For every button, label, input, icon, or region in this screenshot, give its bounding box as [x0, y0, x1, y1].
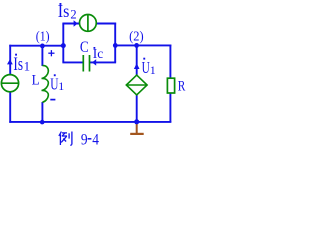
inductor L coil	[42, 66, 49, 103]
wire left branch vertical	[9, 45, 11, 123]
caption Chinese character li (example)	[59, 132, 72, 146]
current source Is1	[1, 75, 18, 92]
label plus inductor	[48, 50, 54, 56]
svg-text:R: R	[178, 79, 186, 95]
label Is1	[13, 54, 30, 75]
wire inductor branch top	[41, 46, 43, 66]
ground	[130, 123, 144, 134]
wire dependent source branch top	[136, 45, 138, 76]
wire Is2 right horizontal	[96, 23, 116, 25]
svg-text:Ic: Ic	[93, 46, 104, 61]
svg-text:U: U	[142, 58, 150, 77]
svg-text:1: 1	[150, 63, 156, 77]
arrow U1 dependent source	[134, 63, 140, 69]
wire Is2 left horizontal	[62, 23, 79, 25]
svg-text:C: C	[80, 39, 89, 56]
wire node 1 rail	[9, 45, 64, 47]
label ic	[93, 46, 104, 61]
wire right riser Is2 to node2	[114, 23, 116, 63]
junction dot bottom ground	[134, 119, 139, 124]
current source Is2	[80, 15, 97, 32]
wire bottom rail	[9, 121, 171, 123]
wire capacitor left vertical	[62, 45, 64, 63]
svg-text:(1): (1)	[36, 28, 50, 43]
capacitor C plates	[83, 55, 89, 72]
label U1 dependent source	[142, 58, 156, 77]
junction dot node1 C riser	[61, 43, 66, 48]
wire node 2 rail	[114, 44, 171, 46]
dependent source U1 diamond	[126, 75, 147, 95]
svg-text:1: 1	[58, 79, 64, 93]
svg-text:2: 2	[70, 8, 76, 22]
arrow ic current direction	[92, 59, 96, 65]
junction dot bottom L	[40, 120, 45, 125]
wire dependent source branch bottom	[136, 95, 138, 123]
resistor R	[167, 78, 174, 93]
svg-text:Is: Is	[13, 54, 23, 75]
wire riser node1 to Is2	[62, 24, 64, 47]
svg-text:1: 1	[24, 60, 30, 74]
label minus inductor	[50, 99, 55, 101]
svg-text:Is: Is	[58, 1, 70, 21]
wire capacitor left horizontal	[62, 61, 83, 63]
arrow Is2 current direction	[74, 20, 78, 26]
wire capacitor right horizontal	[90, 61, 116, 63]
junction dot node1 L	[40, 44, 45, 49]
svg-text:4: 4	[92, 129, 99, 148]
arrow Is1 current direction	[7, 59, 13, 64]
wire inductor branch bottom	[41, 102, 43, 123]
label U1 inductor	[50, 74, 64, 93]
svg-text:(2): (2)	[129, 28, 144, 43]
junction dot node2 dep branch	[134, 43, 139, 48]
svg-text:L: L	[32, 73, 40, 89]
wire right branch vertical	[169, 45, 171, 123]
svg-text:9: 9	[81, 129, 88, 148]
junction dot node2 riser	[113, 43, 118, 48]
label Is2	[58, 1, 77, 22]
